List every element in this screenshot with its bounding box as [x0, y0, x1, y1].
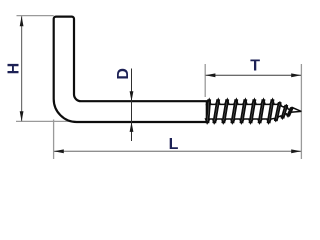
wire: T left extension line	[204, 64, 206, 97]
hook body outline	[54, 17, 207, 122]
dimension H line	[21, 16, 23, 121]
screw thread flank lines	[206, 99, 293, 123]
svg-text:D: D	[115, 68, 132, 80]
dimension D line	[131, 69, 133, 142]
wire: H bottom extension line	[16, 120, 74, 122]
screw thread outline	[206, 99, 302, 123]
dimension T line	[206, 74, 301, 76]
svg-text:H: H	[5, 63, 22, 75]
wire: right extension line shared by T and L	[300, 64, 302, 159]
wire: H top extension line	[17, 15, 54, 17]
svg-text:L: L	[169, 136, 179, 153]
dimension L line	[54, 150, 301, 152]
svg-text:T: T	[250, 57, 260, 74]
wire: L left extension line	[53, 120, 55, 160]
